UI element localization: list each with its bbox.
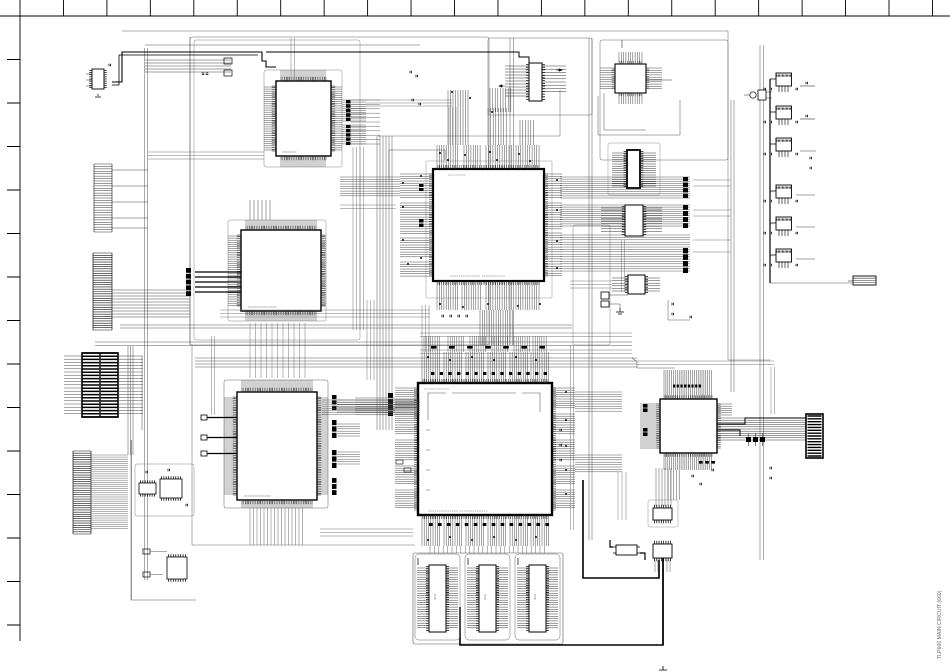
IC101 small SOIC [89, 69, 107, 89]
IC452 SOIC body [160, 476, 182, 501]
wire into A left [148, 152, 264, 159]
connector CN705 [764, 217, 797, 236]
IC402 outer [608, 143, 660, 195]
IC301 top bundle [448, 90, 534, 145]
IC401L fan bottom [242, 500, 312, 508]
border frame left line [19, 16, 21, 641]
IC501 bottom dots [427, 536, 537, 541]
wire cross bus y360 [195, 358, 637, 367]
wire y45 [145, 44, 420, 46]
pad P1 [201, 415, 237, 420]
IC401L fan top [242, 380, 312, 392]
svg-text:############## ###########: ############## ########### [450, 274, 506, 278]
IC501 top bundle [424, 336, 546, 352]
connector CN104 stubs left [64, 356, 82, 414]
net box mid right [573, 225, 610, 345]
resistor R451 [143, 549, 150, 554]
capacitor C303 pair [410, 71, 417, 78]
resistor pack RA404 [332, 478, 337, 495]
IC702 SOIC body [653, 541, 672, 561]
connector CN102 ladder [94, 164, 112, 232]
IC501 QFP body [414, 379, 556, 519]
IC201 QFP body [272, 77, 335, 160]
wire top bus 5 [145, 60, 231, 72]
resistor pack RA401 [332, 395, 337, 410]
resistor pack RA602 [643, 404, 648, 436]
connector CN105 ladder [73, 451, 91, 534]
connector CN704 [764, 185, 797, 204]
IC201 right bus [342, 100, 366, 144]
IC802 memory SOIC [465, 554, 510, 640]
IC201 internal label [282, 150, 297, 154]
wire vbus x760 [760, 45, 764, 560]
wire vbus x145 [145, 48, 148, 580]
IC402 fan right [640, 153, 656, 186]
jumper J701 bar [848, 276, 876, 285]
IC401L right bus [337, 400, 418, 464]
wire chain stubs [770, 79, 776, 255]
svg-text:###########­######: ###########­###### [248, 305, 277, 309]
IC302 DIP body [526, 63, 545, 101]
resistor R503 [404, 468, 411, 472]
wire IC702 down [662, 558, 664, 645]
IC301 right bus3 [560, 235, 690, 271]
wire cross bus y325 [120, 325, 572, 328]
IC501 top dots [427, 356, 537, 361]
wire vbus x190 [189, 37, 191, 345]
wire mem arrows [418, 558, 518, 565]
IC601 fan top [664, 370, 712, 399]
wire A right verticals [353, 147, 364, 330]
transistor Q601 [746, 433, 751, 446]
connector CN701 [764, 73, 815, 92]
IC401L outer box [224, 380, 328, 508]
wire vbus x510 [510, 38, 514, 345]
IC501 left bundle [355, 398, 395, 415]
IC501 right dots [565, 391, 567, 495]
IC403 fan right [643, 208, 662, 231]
ground G401 [616, 308, 624, 314]
connector CN102 stubs [112, 170, 148, 228]
wire x425 verticals [422, 305, 429, 352]
wire y350 bus [420, 333, 632, 354]
resistor pack RA303 [683, 205, 688, 228]
pad P2 [201, 435, 237, 440]
IC301 fan left [400, 174, 433, 276]
wire x368 bundle [367, 300, 374, 380]
IC501 inner outline [426, 393, 540, 490]
IC501 right bus [575, 392, 622, 472]
IC803 memory SOIC [515, 554, 560, 640]
wire y310 bus [220, 310, 430, 317]
IC201 outer box [264, 70, 342, 167]
svg-text:MEM: MEM [533, 594, 537, 600]
resistor R502 [396, 460, 403, 464]
IC301 internal label [448, 173, 506, 278]
wire x292 pair [291, 38, 295, 80]
IC202 fan left [228, 236, 241, 305]
wire mid bundle x380 [377, 136, 392, 430]
wire bus right ext [637, 361, 775, 414]
IC501 fan right [552, 388, 575, 508]
wire IC702 stubs [655, 560, 670, 572]
transistor Q602 [753, 433, 758, 446]
svg-text:################: ################ [244, 494, 271, 498]
IC401L internal label [244, 494, 271, 498]
transistor Q701 [744, 90, 772, 100]
IC601 fan bottom [664, 453, 712, 470]
wire cluster1 caps [146, 469, 187, 507]
net box top right chain [122, 30, 728, 32]
resistor pack RA503 [388, 393, 393, 416]
wire vpair x212 [212, 336, 215, 415]
IC453 SOIC body [167, 554, 187, 582]
connector CN104 grid [82, 353, 118, 417]
IC401 fan bottom [619, 93, 642, 104]
wire C in from left [389, 150, 445, 179]
resistor pack RA201 [346, 100, 351, 121]
IC301 bottom dots [439, 303, 541, 308]
resistor pack RA203 [186, 268, 191, 296]
IC201 fan right [331, 87, 342, 150]
ground G101 [95, 95, 101, 97]
wire thick y645 [460, 558, 663, 645]
wire conn arrows [796, 195, 815, 259]
IC501 fan left [395, 388, 418, 508]
IC202 QFP body [237, 226, 325, 315]
wire y532 bus [320, 529, 413, 536]
wire vbus x733 [731, 100, 734, 392]
resistor pack RA202 [346, 125, 351, 145]
IC301 right bus1 [560, 177, 690, 198]
IC601 fan left [640, 404, 660, 448]
resistor pack RA302 [683, 177, 688, 198]
IC501 internal label [424, 387, 488, 513]
wire X401 links [609, 240, 628, 308]
resistor R452 [143, 572, 150, 577]
IC301 fan bottom [437, 281, 539, 310]
net box around IC301 region [488, 38, 592, 115]
connector CN703 [764, 138, 797, 157]
IC401 fan right [646, 68, 662, 89]
net box around IC401 region [600, 40, 728, 160]
IC301 right dots [556, 179, 558, 269]
IC202 internal label [248, 305, 277, 309]
IC404 SOIC body [625, 275, 648, 294]
IC451 box [135, 464, 194, 516]
IC202 outer box [228, 220, 326, 321]
wire BE verticals [250, 323, 305, 378]
resistor pack RA403 [332, 450, 337, 468]
IC302 fan right [542, 66, 566, 92]
IC601 bottom bundle [668, 470, 679, 500]
capacitor row C301 [442, 315, 467, 318]
wire D right down [618, 472, 626, 520]
svg-text:#### ########: #### ######## [448, 173, 467, 177]
IC202 fan top [246, 220, 316, 230]
IC202 thick bus left [195, 272, 241, 292]
connector CN103 bus right [112, 290, 190, 317]
resistor row RA603 [699, 461, 715, 464]
capacitor C705 tree [668, 300, 691, 320]
net box around IC202 region [194, 40, 360, 340]
svg-text:############## #############: ############## ############# [428, 509, 488, 513]
IC401 sub wires [598, 93, 680, 135]
IC402 SOIC body [624, 150, 644, 188]
capacitor C601 group [712, 467, 771, 480]
IC302 arrows [499, 69, 562, 87]
resistor row RA502 [429, 523, 549, 526]
wire A to C top [366, 100, 456, 145]
IC451 SOIC body [139, 480, 156, 496]
net box bottom sub-board [413, 553, 563, 644]
wire vbus x590 [589, 38, 592, 540]
IC401 fan left [600, 68, 615, 89]
wire thick y578 [583, 480, 659, 578]
IC401L bottom bus [250, 508, 303, 545]
IC404 fan right [645, 278, 660, 291]
wire bus to F [632, 358, 675, 368]
IC601 fan right short [717, 404, 732, 415]
crystal X401 [601, 292, 609, 307]
wire D bottom to box [430, 546, 544, 553]
capacitor col C502 [560, 429, 561, 462]
IC401L fan right [317, 398, 328, 494]
crystal X701 [613, 545, 640, 555]
net box right column [728, 31, 770, 360]
resistor row RA504 [431, 346, 545, 349]
capacitor C302 pair [412, 99, 420, 106]
connector CN104 stubs right [118, 356, 143, 430]
IC401L QFP body [233, 388, 321, 504]
svg-text:TLP660 MAIN CIRCUIT (660): TLP660 MAIN CIRCUIT (660) [937, 590, 943, 659]
resistor pack RA301 [419, 184, 424, 227]
title text TLP660 MAIN CIRCUIT [937, 590, 943, 659]
svg-text:MEM: MEM [433, 594, 437, 600]
wire bottom gray [192, 345, 415, 545]
wire thick top bus ext [266, 52, 529, 63]
IC301 fan right [544, 174, 562, 276]
IC501 fan bottom [422, 515, 549, 546]
IC301 right bus2 [560, 205, 690, 226]
resistor row RA601 [673, 385, 701, 388]
wire y135 top of C box [378, 90, 560, 136]
IC601 fan right [717, 418, 806, 440]
connector CN601 ladder [806, 414, 823, 458]
IC301 left dots [402, 175, 422, 265]
border ticks top [20, 0, 932, 16]
svg-text:### ##### ### #####: ### ##### ### ##### [424, 387, 450, 391]
IC301 fan top [437, 145, 539, 169]
IC302 fan left [505, 66, 529, 96]
IC801 memory SOIC [415, 554, 460, 640]
resistor row RA501 [431, 372, 547, 375]
wire F btm caps [692, 475, 701, 486]
IC701 SOIC body [653, 505, 672, 523]
connector CN702 [764, 106, 815, 125]
IC401 QFP body [612, 61, 649, 96]
IC403 fan left [601, 208, 625, 231]
IC301 top dots [439, 91, 531, 162]
wire left col x131 [131, 440, 133, 600]
border frame top line [0, 15, 950, 17]
IC201 fan top [281, 70, 325, 81]
IC401 gnd arrow [622, 40, 672, 80]
IC401L fan left [224, 398, 237, 494]
IC501 fan top [422, 352, 549, 383]
wire IC701 entries [656, 468, 671, 506]
transistor Q603 [760, 433, 765, 446]
capacitor C703 grp [800, 151, 816, 169]
net box around IC201 region [190, 37, 489, 345]
wire caps x205 [202, 73, 209, 74]
capacitor C101 [109, 64, 110, 67]
wire F to CN601 thick [717, 418, 806, 436]
IC601 QFP body [656, 395, 721, 457]
pad P3 [201, 451, 237, 456]
IC701 outer [648, 500, 678, 527]
wire S2C bundle [490, 88, 511, 112]
IC301 QFP body [429, 165, 548, 285]
IC301 bottom bundle [480, 310, 512, 345]
resistor R101 stubs [86, 74, 92, 86]
connector CN105 fan [91, 346, 133, 529]
wire junction blocks [224, 58, 232, 76]
border ticks left [7, 16, 20, 625]
connector CN706 [764, 249, 797, 268]
IC201 fan bottom [281, 156, 325, 167]
ground G701 [659, 666, 667, 670]
wire X701 thick [610, 540, 645, 560]
IC404 fan left [612, 278, 628, 291]
wire S5 left ext [570, 281, 612, 288]
IC201 fan left [264, 87, 276, 150]
wire thick L from IC101 [112, 52, 276, 82]
connector CN103 ladder [93, 253, 112, 330]
IC402 fan left [612, 153, 627, 186]
wire cross bus y342 [95, 342, 632, 346]
IC202 fan right [321, 236, 326, 305]
wire thick pair [112, 55, 258, 85]
resistor pack RA402 [332, 420, 337, 438]
wire y283 to bar [770, 282, 853, 284]
wire x571 pair [571, 345, 574, 530]
IC403 SOIC body [622, 205, 646, 236]
wire cluster2 [131, 440, 196, 600]
IC301 outer box [426, 161, 552, 298]
IC202 fan bottom [246, 311, 316, 321]
wire E-D fan [322, 400, 420, 415]
IC201 right wires long [351, 100, 380, 144]
svg-text:MEM: MEM [483, 594, 487, 600]
wire top h152 [340, 205, 396, 209]
IC301 fan left2 [340, 177, 400, 196]
IC202 top entries [250, 200, 270, 220]
wire C right to col [693, 180, 731, 252]
svg-text:##########: ########## [282, 150, 297, 154]
resistor pack RA304 [683, 248, 688, 273]
IC401 fan top [619, 52, 642, 64]
wire right chain [769, 79, 771, 283]
